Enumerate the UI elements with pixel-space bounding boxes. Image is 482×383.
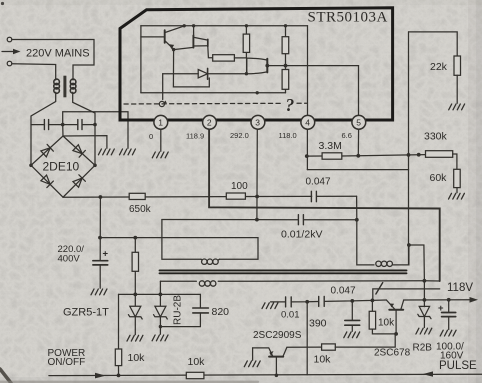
pin 1 circle: [154, 115, 168, 129]
wire 10k left to bus: [118, 366, 120, 376]
wire choke right down to bridge right corner: [73, 92, 95, 165]
wire aux secondary loop (top-right): [357, 220, 425, 281]
wire filter cap to ground: [99, 266, 101, 289]
capacitor 0.01: [286, 297, 292, 307]
node zener bus / 10k column: [133, 293, 137, 297]
svg-text:0.01: 0.01: [281, 310, 300, 321]
label 100.0/160V: [436, 342, 464, 362]
wire pin2 loop to secondary node: [424, 280, 439, 282]
ground (R2B): [416, 328, 432, 334]
resistor 100: [226, 193, 245, 199]
svg-text:GZR5-1T: GZR5-1T: [63, 307, 109, 319]
IC internal top rail: [141, 25, 308, 27]
ground (zener1): [127, 335, 143, 341]
pin 3 circle: [251, 115, 265, 129]
mains input arrow: [2, 49, 21, 55]
ground (output cap): [440, 330, 456, 336]
svg-text:RU-2B: RU-2B: [173, 295, 184, 325]
node bridge left corner: [29, 164, 33, 168]
wire 0.01/2kV bus: [162, 219, 357, 221]
node output cap tap: [447, 298, 451, 302]
node bridge right corner: [93, 164, 97, 168]
node 0.01 bus / pin3: [255, 218, 259, 222]
svg-text:118.9: 118.9: [186, 132, 204, 141]
wire midpoint to ground: [63, 112, 128, 149]
wire mains top: [12, 40, 94, 81]
wire bridge top to ground: [63, 136, 107, 149]
svg-text:390: 390: [309, 318, 327, 330]
zener R2B: [418, 300, 431, 328]
svg-text:?: ?: [286, 95, 295, 115]
node 330k left: [417, 153, 421, 157]
pulse arrowhead: [423, 371, 433, 376]
transistor Q1 (IC darlington input): [141, 26, 184, 49]
node Q1 emitter / Q2 base: [172, 48, 175, 51]
svg-text:118V: 118V: [447, 282, 473, 294]
resistor R-A (IC internal, vertical): [243, 26, 249, 58]
transistor 2SC678: [386, 300, 403, 334]
IC internal left vertical: [140, 26, 142, 93]
wire 0.01 row: [271, 300, 387, 302]
resistor 10k (left vertical): [115, 349, 121, 366]
wire pin5 down: [357, 129, 359, 156]
resistor 330k: [426, 151, 453, 158]
node Q3 output: [265, 64, 269, 68]
wire 10k column from primary node: [134, 238, 136, 306]
ground (2SC2909S): [244, 361, 260, 367]
wire 118V rail: [404, 297, 478, 303]
node Q1 collector / rail: [183, 24, 186, 27]
right-side vertical bus: [408, 32, 410, 265]
capacitor CX1: [44, 120, 48, 130]
node secondary / zener bus: [159, 293, 163, 297]
svg-text:+: +: [103, 249, 109, 260]
ground (cap midpoint): [120, 149, 136, 155]
bridge diode top-left: [41, 144, 54, 157]
wire R-D to node: [234, 57, 246, 59]
resistor R-C (IC internal, vertical): [282, 66, 289, 93]
resistor 3.3M: [322, 153, 342, 159]
label POWER ON/OFF: [48, 348, 86, 368]
ground (22k): [449, 104, 465, 110]
zener GZR5-1T: [128, 306, 142, 334]
svg-text:0: 0: [149, 132, 153, 141]
wire secondary left end down: [159, 281, 161, 306]
resistor 10k (power bus horizontal): [186, 372, 204, 378]
svg-text:2DE10: 2DE10: [43, 160, 80, 174]
svg-text:ON/OFF: ON/OFF: [48, 357, 86, 368]
capacitor 820: [193, 294, 209, 313]
resistor 10k (collector horizontal): [322, 344, 336, 350]
capacitor 0.047 (bottom): [319, 296, 325, 306]
node pin3 / DC rail: [255, 195, 259, 199]
node 820 bottom join: [159, 325, 162, 328]
wire 2SC2909S emitter to ground: [252, 348, 254, 360]
wire choke left to bridge left corner: [31, 92, 56, 165]
wire 22k feed: [409, 32, 458, 56]
transformer core: [160, 270, 407, 273]
wire pin4 down: [306, 129, 308, 169]
terminal L (mains line): [7, 37, 12, 42]
wire pin2 long run: [209, 129, 440, 281]
wire pin4 vcc riser: [307, 26, 309, 115]
transistor 2SC2909S: [253, 347, 322, 375]
diode D1 (IC internal): [163, 68, 247, 79]
zener RU-2B diode: [154, 306, 168, 334]
svg-text:10k: 10k: [314, 354, 332, 366]
wire pin1 sense up to diode: [162, 74, 164, 100]
svg-text:118.0: 118.0: [279, 131, 297, 140]
node 10k right tap: [371, 299, 375, 303]
svg-text:3.3M: 3.3M: [319, 140, 342, 152]
wire collector sense with slash: [373, 283, 440, 301]
capacitor CX2: [78, 120, 82, 130]
svg-text:220V MAINS: 220V MAINS: [26, 48, 90, 60]
wire 820 bottom link: [160, 313, 200, 326]
scan artifact bottom-left smudge: [0, 369, 11, 383]
capacitor 100.0/160V: [442, 300, 456, 330]
capacitor 0.047 (snubber top): [311, 191, 316, 201]
wire output node down to 118V rail: [423, 281, 425, 300]
transistor Q2 (IC darlington driver): [193, 26, 212, 58]
wire pin3 down: [256, 129, 258, 219]
bridge diode bottom-right: [72, 175, 85, 188]
node internal bus / pin3: [256, 91, 259, 94]
X-cap bus wire: [31, 124, 95, 126]
node DC rail / filter cap: [99, 195, 103, 199]
svg-text:+: +: [438, 303, 444, 314]
svg-text:22k: 22k: [430, 61, 448, 73]
probe circle at pin1: [159, 101, 167, 107]
scan artifact bottom edge streak: [0, 381, 258, 383]
IC inner vertical to diode cathode: [173, 50, 209, 87]
secondary winding S2: [376, 261, 393, 266]
bridge diode bottom-left: [40, 175, 53, 188]
wire pin4 aux run to transformer: [307, 169, 408, 171]
node R2B tap: [423, 298, 427, 302]
svg-text:2SC2909S: 2SC2909S: [253, 330, 302, 341]
ground (bridge top): [98, 149, 114, 155]
wire Q3 output to pin5: [267, 65, 358, 67]
svg-text:330k: 330k: [424, 131, 448, 143]
node pin4 / 3.3M: [305, 154, 309, 158]
svg-text:10k: 10k: [378, 318, 395, 329]
node power bus / 10k left: [117, 374, 121, 378]
node 0.01 bus right: [355, 218, 359, 222]
wire power on/off bus: [49, 373, 482, 379]
wire 3.3M row: [307, 155, 426, 157]
ground (60k): [449, 193, 465, 199]
ground (pin1): [152, 152, 168, 158]
ground (filter cap): [91, 289, 107, 295]
wire Q1 to Q2 base: [174, 47, 194, 49]
node 390 tap: [350, 299, 354, 303]
svg-text:60k: 60k: [430, 172, 448, 184]
node primary top / rail x100: [98, 236, 102, 240]
ground (zener2): [152, 335, 168, 341]
svg-text:4: 4: [305, 118, 310, 128]
line-filter choke L1 left winding: [54, 79, 60, 93]
node pin5 / 3.3M row: [356, 154, 360, 158]
transformer primary winding: [201, 259, 220, 264]
IC internal base bus to R-C: [141, 92, 286, 94]
svg-text:100: 100: [231, 181, 248, 192]
resistor 60k: [454, 169, 461, 187]
line-filter choke L1 right winding: [70, 79, 76, 93]
wire 0.047 down to 0.01/2kV node: [356, 196, 358, 220]
transformer primary loop: [100, 220, 258, 260]
capacitor 220.0/400V: [93, 261, 108, 265]
svg-text:R2B: R2B: [413, 343, 433, 354]
node R-B top: [284, 24, 287, 27]
svg-text:10k: 10k: [128, 352, 146, 364]
capacitor 390: [345, 301, 360, 331]
resistor 650k: [129, 193, 145, 199]
node base bus: [394, 332, 398, 336]
pin 5 circle: [352, 115, 366, 129]
node diode / Q3 emitter: [245, 72, 248, 75]
svg-text:10k: 10k: [188, 356, 206, 368]
secondary winding S1: [199, 281, 216, 286]
bridge rectifier 2DE10 diamond: [31, 136, 95, 197]
capacitor 0.01/2kV: [298, 215, 303, 225]
wire pin5 riser: [358, 66, 360, 115]
node Q2 collector / rail: [192, 24, 195, 27]
resistor (start-up, vertical): [132, 252, 138, 271]
ground (390): [344, 332, 360, 338]
node R-A top: [245, 24, 248, 27]
svg-text:5: 5: [356, 118, 361, 128]
wire DC+ rail from bridge bottom: [63, 196, 357, 197]
resistor R-D (IC internal, horizontal): [213, 55, 235, 61]
choke core: [63, 76, 66, 98]
node secondary output join: [423, 279, 427, 283]
svg-text:400V: 400V: [58, 254, 81, 265]
node X-cap midpoint: [61, 123, 65, 127]
svg-text:0.01/2kV: 0.01/2kV: [281, 229, 322, 241]
terminal N (mains neutral): [7, 61, 12, 66]
svg-text:292.0: 292.0: [230, 131, 249, 140]
svg-text:650k: 650k: [129, 204, 152, 215]
resistor 22k: [454, 56, 461, 75]
wire zener bus: [119, 293, 201, 295]
svg-text:3: 3: [255, 118, 260, 128]
svg-text:2: 2: [207, 118, 212, 128]
resistor R-B (IC internal, vertical): [282, 26, 289, 66]
bridge diode top-right: [73, 144, 86, 157]
node 0.01/0.047: [305, 300, 309, 304]
wire main rail down to filter cap: [99, 197, 101, 260]
node 2SC2909S base / power bus: [275, 374, 279, 378]
svg-text:6.6: 6.6: [342, 131, 352, 140]
dashed feedback line: [124, 102, 307, 105]
node R-B/R-C junction: [284, 64, 288, 68]
svg-text:1: 1: [158, 118, 163, 128]
svg-text:STR50103A: STR50103A: [308, 10, 388, 26]
node right bus / 3.3M row: [407, 153, 411, 157]
ground (0.01 input): [262, 303, 278, 309]
resistor 10k (right vertical): [369, 300, 396, 334]
wire mains bottom: [12, 64, 56, 80]
wire zener bus down-leg: [118, 294, 120, 349]
wire bridge top corner: [62, 125, 64, 136]
wire secondary (bottom-left): [160, 280, 424, 283]
scan artifact top-left dot: [1, 2, 4, 5]
wire pulse column: [306, 302, 308, 375]
wire 60k to ground: [456, 188, 458, 193]
node primary top / 10k column: [133, 236, 137, 240]
wire 330k to 60k: [453, 154, 457, 169]
pin 4 circle: [301, 115, 315, 129]
pin 2 circle: [203, 115, 217, 129]
label 220.0/400V: [58, 244, 85, 265]
svg-text:PULSE: PULSE: [439, 360, 477, 372]
svg-text:0.047: 0.047: [331, 286, 356, 297]
transistor Q3 (IC output): [247, 58, 268, 74]
svg-text:2SC678: 2SC678: [374, 348, 411, 359]
node X-bus / mains riser: [93, 123, 97, 127]
wire pin1 to ground: [160, 129, 162, 151]
node aux loop top: [407, 243, 411, 247]
svg-text:0.047: 0.047: [306, 177, 331, 188]
wire 22k to ground: [456, 75, 458, 103]
svg-text:820: 820: [212, 306, 230, 318]
wire 10k mid to base node: [335, 334, 396, 347]
IC STR50103A outline box: [120, 8, 393, 120]
